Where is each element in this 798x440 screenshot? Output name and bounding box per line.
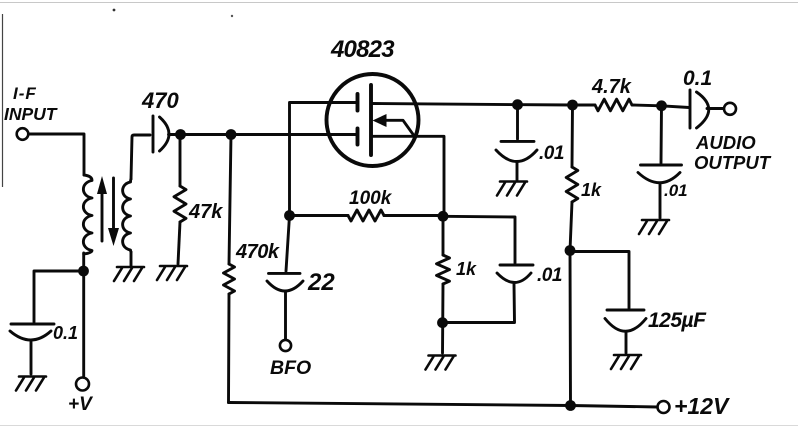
capacitor 0.1 bypass (left) — [10, 324, 54, 374]
node gate-1/100k/22 — [284, 210, 295, 221]
ground output filter — [639, 220, 669, 234]
scan artifact left edge line — [2, 14, 4, 187]
transformer T1 primary winding — [83, 175, 92, 254]
svg-text:I-F: I-F — [13, 84, 37, 103]
label AUDIO OUTPUT — [694, 132, 772, 173]
svg-text:470k: 470k — [235, 241, 280, 263]
ground drain bypass — [497, 182, 527, 196]
resistor 1k drain load — [566, 105, 578, 406]
terminal I-F input — [17, 128, 29, 140]
wire gate-2 rail — [176, 133, 356, 136]
wire primary bottom to +V — [82, 253, 85, 377]
capacitor .01 drain bypass — [496, 105, 537, 180]
svg-text:INPUT: INPUT — [4, 104, 58, 124]
node source/ground junction — [437, 317, 448, 328]
ground 125uF — [611, 355, 641, 369]
ground secondary — [114, 267, 144, 281]
capacitor .01 source bypass — [443, 216, 533, 322]
terminal BFO — [280, 340, 291, 351]
svg-text:470: 470 — [141, 88, 179, 113]
node output junction — [656, 100, 667, 111]
svg-text:+12V: +12V — [674, 393, 730, 419]
node drain/.01 — [512, 99, 523, 110]
node primary bottom junction — [78, 266, 89, 277]
svg-text:0.1: 0.1 — [53, 323, 78, 343]
transistor gate-1 bar — [356, 94, 360, 111]
svg-text:4.7k: 4.7k — [591, 76, 632, 98]
scan artifact top hairline — [0, 2, 798, 4]
svg-text:BFO: BFO — [270, 357, 311, 379]
ground source — [426, 356, 456, 370]
resistor 4.7k — [595, 99, 632, 111]
transformer T1 secondary winding — [123, 179, 131, 252]
transformer tuning arrow down — [108, 178, 119, 246]
terminal audio output — [724, 103, 736, 115]
capacitor 22 BFO coupling — [267, 216, 303, 341]
scan artifact bottom hairline — [0, 425, 798, 427]
terminal +V — [76, 378, 89, 391]
node 1k/125uF junction — [565, 245, 576, 256]
wire input to transformer — [29, 134, 84, 175]
node drain/1k — [567, 100, 578, 111]
svg-text:AUDIO: AUDIO — [695, 132, 756, 153]
capacitor 470 coupling — [153, 116, 176, 152]
svg-text:.01: .01 — [539, 143, 564, 164]
node 100k/source/1k — [438, 211, 449, 222]
transistor gate-2 bar — [356, 129, 360, 145]
transistor Q1 40823 body circle — [327, 74, 419, 166]
svg-text:.01: .01 — [537, 265, 562, 286]
svg-text:47k: 47k — [188, 201, 223, 223]
resistor 470k — [224, 135, 235, 403]
wire secondary bottom to ground — [130, 252, 133, 266]
terminal +12V — [658, 401, 670, 413]
svg-text:0.1: 0.1 — [683, 67, 712, 90]
wire secondary top to 470 cap — [131, 135, 150, 179]
resistor 47k — [174, 139, 186, 264]
svg-text:.01: .01 — [664, 181, 688, 200]
svg-text:+V: +V — [68, 394, 93, 415]
label I-F INPUT — [4, 84, 58, 124]
svg-text:1k: 1k — [456, 259, 477, 279]
wire +12V rail — [229, 403, 658, 408]
scan artifact speck — [113, 9, 116, 12]
svg-text:1k: 1k — [581, 180, 602, 200]
wire source lead — [371, 136, 444, 216]
wire gate-1 lead — [290, 103, 358, 216]
capacitor 0.1 output — [690, 90, 723, 128]
capacitor .01 output filter — [638, 106, 682, 218]
wire junction to 125uF — [570, 252, 629, 309]
resistor 100k — [290, 210, 444, 221]
transformer tuning arrow up — [97, 176, 107, 241]
scan artifact speck 2 — [231, 15, 233, 17]
node 470k tap — [226, 129, 237, 140]
node rail junction — [565, 400, 576, 411]
wire junction to bypass cap — [34, 271, 79, 322]
transistor channel bar — [369, 85, 373, 155]
ground bypass cap — [16, 377, 46, 391]
node 470/47k — [175, 129, 186, 140]
ground 47k — [157, 266, 187, 280]
svg-text:OUTPUT: OUTPUT — [694, 152, 772, 173]
svg-text:125µF: 125µF — [648, 309, 707, 332]
transistor substrate arrow — [373, 114, 415, 136]
svg-text:40823: 40823 — [330, 36, 395, 63]
capacitor 125uF — [605, 310, 646, 353]
wire drain rail — [371, 104, 595, 106]
wire 4.7k to output cap — [632, 105, 689, 108]
svg-text:22: 22 — [307, 269, 335, 296]
svg-text:100k: 100k — [349, 188, 393, 209]
resistor 1k source — [437, 216, 450, 353]
